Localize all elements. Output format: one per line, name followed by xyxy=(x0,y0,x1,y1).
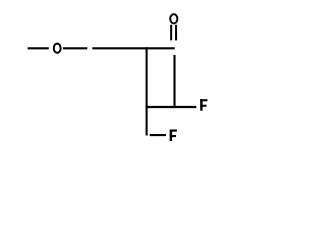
node F (fluorine label on CH2F group) xyxy=(170,130,177,142)
node O (ether oxygen label) xyxy=(54,44,61,53)
wire: ring bottom bond C4-C2 plus bond C2-F xyxy=(146,106,197,108)
wire: ring right bond C1-C2 xyxy=(173,55,175,108)
wire: bond CH2-F xyxy=(150,134,166,136)
wire: ring left bond C3-C4 plus bond C4-CH2F xyxy=(146,47,148,135)
wire: bond CH2-C3 plus ring top bond C3-C1 xyxy=(92,47,174,49)
wire: C=O double bond (two parallel lines) xyxy=(170,25,172,41)
wire: bond CH3-O xyxy=(28,47,49,49)
node F (fluorine label on ring carbon C2) xyxy=(200,99,207,111)
wire: bond O-CH2 xyxy=(63,47,87,49)
node O (carbonyl oxygen label) xyxy=(170,14,177,23)
